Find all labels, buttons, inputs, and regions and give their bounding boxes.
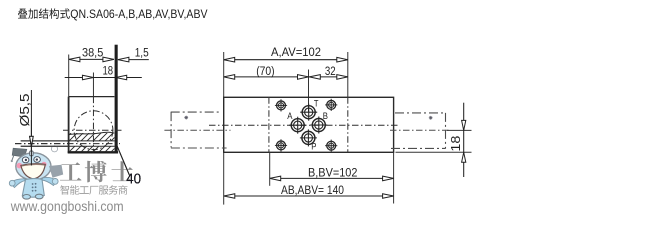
phantom star left <box>184 116 188 120</box>
svg-text:38,5: 38,5 <box>82 46 103 60</box>
dimension (70) <box>224 64 309 79</box>
port P <box>300 129 317 146</box>
plate outline (top view) <box>224 97 394 152</box>
svg-text:40: 40 <box>126 172 141 188</box>
phantom centerline left <box>164 129 230 131</box>
leader overlay 40 <box>115 142 129 176</box>
dimension 1,5 <box>118 46 149 62</box>
dimension Ø5,5 leader <box>17 90 33 166</box>
dimension B,BV=102 <box>270 165 394 180</box>
bolt hole top-right <box>325 99 337 111</box>
svg-text:18: 18 <box>449 136 463 152</box>
phantom star right <box>429 116 433 120</box>
title text <box>18 8 208 20</box>
port A <box>289 117 306 134</box>
port B <box>310 117 327 134</box>
dimension 38,5 <box>69 46 114 62</box>
svg-text:A: A <box>287 110 293 121</box>
hatch band upper <box>62 132 138 142</box>
svg-text:B: B <box>323 110 328 121</box>
hidden edge x268.9 <box>268 97 270 152</box>
extension line x269.7 bottom <box>269 152 271 186</box>
watermark mascot robot <box>9 148 63 199</box>
extension line x223.7 bottom <box>223 152 225 204</box>
left view extension line x93.4 <box>92 73 94 97</box>
svg-text:P: P <box>311 140 316 151</box>
port T <box>300 104 317 121</box>
valve body outline (left view) <box>68 97 118 153</box>
svg-text:www.gongboshi.com: www.gongboshi.com <box>10 199 124 214</box>
svg-text:32: 32 <box>325 64 336 78</box>
phantom module left <box>171 112 227 148</box>
subplate 1.5mm thick plate line <box>115 45 118 153</box>
bolt hole bottom-right <box>325 140 337 152</box>
extension line x393.6 bottom <box>393 152 395 203</box>
watermark brand 工博士 <box>60 162 82 180</box>
break line (section boundary) <box>69 132 115 135</box>
main horizontal centerline <box>209 124 400 126</box>
svg-text:1,5: 1,5 <box>135 46 149 60</box>
label 40 with leader <box>115 142 141 188</box>
svg-text:QN.SA06-A,B,AB,AV,BV,ABV: QN.SA06-A,B,AB,AV,BV,ABV <box>70 9 207 21</box>
svg-text:T: T <box>314 98 319 109</box>
dimension 32 <box>309 64 348 79</box>
svg-text:AB,ABV= 140: AB,ABV= 140 <box>281 183 344 197</box>
passage centerline <box>15 143 120 145</box>
svg-text:Ø5,5: Ø5,5 <box>17 94 32 127</box>
drilling passage lines <box>21 140 115 142</box>
leader overlay Ø5,5 <box>30 120 32 166</box>
svg-text:18: 18 <box>103 64 114 78</box>
hatch band lower <box>62 145 136 153</box>
extension line x223.7 top <box>223 52 225 97</box>
watermark registered mark <box>51 146 57 152</box>
wire overlay: passage lines over watermark <box>21 140 68 142</box>
vertical centerline (left view) <box>92 97 94 153</box>
cavity dash-dot circle <box>74 111 113 150</box>
svg-text:A,AV=102: A,AV=102 <box>271 45 321 59</box>
extension line x347.8 top <box>347 52 349 97</box>
dimension 18 (right side) <box>396 103 472 177</box>
bolt hole bottom-left <box>275 139 287 151</box>
svg-text:B,BV=102: B,BV=102 <box>308 165 358 179</box>
hidden edge x347.8 <box>347 97 349 152</box>
dimension AB,ABV=140 <box>224 183 394 198</box>
bolt hole top-left <box>275 99 287 111</box>
dimension A,AV=102 <box>224 45 348 62</box>
phantom centerline right <box>390 129 449 131</box>
left view extension line x68.7 <box>68 55 70 97</box>
dimension 18 (left view) <box>65 64 142 80</box>
phantom module right <box>391 113 446 148</box>
extension line x308.4 <box>308 70 310 113</box>
svg-text:(70): (70) <box>256 64 274 78</box>
horizontal centerline (left view) <box>63 129 122 131</box>
watermark tagline 智能工厂服务商 <box>60 185 69 195</box>
